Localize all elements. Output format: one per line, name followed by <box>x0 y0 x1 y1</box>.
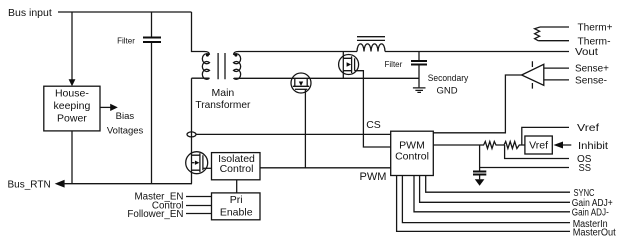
svg-text:Vref: Vref <box>577 123 599 134</box>
svg-text:Sense-: Sense- <box>575 76 607 87</box>
svg-text:Main: Main <box>212 87 235 99</box>
svg-text:Power: Power <box>57 113 87 125</box>
block pri enable <box>212 193 261 220</box>
wire primary top <box>192 12 210 55</box>
svg-text:Filter: Filter <box>385 60 403 69</box>
polarity dot primary <box>206 54 209 57</box>
svg-text:Secondary: Secondary <box>428 73 469 84</box>
transistor Q3 primary switch <box>186 152 208 174</box>
arrow bias voltages <box>100 106 111 108</box>
wire OS tap <box>505 145 569 159</box>
svg-text:CS: CS <box>366 119 381 131</box>
block isolated control <box>212 153 261 180</box>
svg-text:Vref: Vref <box>529 140 548 152</box>
svg-text:Bias: Bias <box>116 111 135 122</box>
wire Q3 gate <box>203 167 212 169</box>
wire housekeeping feed with arrow <box>71 12 73 80</box>
wire secondary ground run <box>234 77 420 79</box>
resistor R2 thermistor <box>535 27 540 41</box>
wire Q1 gate <box>355 71 391 147</box>
transistor Q1 forward rectifier <box>339 52 359 79</box>
svg-text:Transformer: Transformer <box>195 99 250 111</box>
svg-text:GND: GND <box>436 85 457 96</box>
wire housekeeping return <box>71 131 73 184</box>
svg-text:Sense+: Sense+ <box>575 64 609 75</box>
wire bus input rail <box>58 11 192 13</box>
transformer T1 primary winding <box>202 54 209 80</box>
capacitor C3 output filter <box>418 52 420 61</box>
resistor R1 (to Vref) <box>433 142 525 149</box>
wire primary return <box>191 78 193 184</box>
wire MasterOut <box>397 176 570 232</box>
wire isolated control to pri enable <box>236 180 238 193</box>
svg-text:Follower_EN: Follower_EN <box>127 209 183 220</box>
wire sense+ <box>544 67 569 69</box>
svg-text:Gain ADJ-: Gain ADJ- <box>572 207 609 218</box>
transistor Q2 catch rectifier <box>291 73 311 93</box>
svg-text:Control: Control <box>395 151 429 163</box>
wire follower_en <box>186 213 212 215</box>
wire Q2 gate <box>304 89 306 168</box>
node A (primary sense node, open ellipse) <box>187 132 196 137</box>
inductor L1 core bars <box>357 37 385 41</box>
svg-text:Therm-: Therm- <box>578 36 611 47</box>
svg-text:Control: Control <box>220 163 254 175</box>
wire sense- <box>544 79 569 81</box>
transformer T1 core <box>218 53 225 79</box>
wire CS rail <box>196 133 391 135</box>
capacitor C2 soft start <box>479 145 481 171</box>
svg-text:PWM: PWM <box>399 139 425 151</box>
transformer T1 secondary winding <box>234 54 241 80</box>
block Vref <box>525 136 552 154</box>
svg-text:Therm+: Therm+ <box>578 23 613 34</box>
arrow inhibit <box>554 142 564 149</box>
capacitor C1 input filter <box>151 12 153 37</box>
wire rail after inductor <box>385 51 569 53</box>
wire control <box>186 205 212 207</box>
svg-text:Pri: Pri <box>230 194 243 206</box>
ground (triangle) <box>475 179 485 186</box>
svg-text:House-: House- <box>55 88 89 100</box>
wire sense feedback to PWM <box>433 75 521 133</box>
svg-text:Enable: Enable <box>220 206 253 218</box>
svg-text:Filter: Filter <box>117 36 135 45</box>
block PWM control <box>391 131 434 175</box>
wire Vref output <box>522 127 569 145</box>
wire master_en <box>186 196 212 198</box>
svg-text:MasterOut: MasterOut <box>573 228 616 239</box>
svg-text:Vout: Vout <box>575 47 598 58</box>
inductor L1 <box>357 44 385 52</box>
svg-text:Bus input: Bus input <box>8 7 52 19</box>
svg-text:Voltages: Voltages <box>107 126 144 137</box>
wire therm+ <box>540 26 569 28</box>
wire Gain ADJ- <box>414 176 570 212</box>
svg-text:Bus_RTN: Bus_RTN <box>8 179 51 190</box>
svg-text:PWM: PWM <box>360 171 387 183</box>
wire Gain ADJ+ <box>420 176 570 203</box>
wire SYNC <box>426 176 570 193</box>
wire primary bottom <box>192 77 210 79</box>
block housekeeping power <box>44 86 100 131</box>
wire therm- <box>538 40 569 42</box>
wire MasterIn <box>402 176 570 223</box>
wire bus rtn rail with arrow <box>55 180 65 188</box>
polarity dot secondary <box>234 54 237 57</box>
op-amp sense buffer <box>522 61 544 88</box>
svg-text:Inhibit: Inhibit <box>578 141 608 152</box>
wire secondary rail to Vout <box>234 52 358 55</box>
wire PWM (isolated control to pwm control) <box>260 167 391 169</box>
svg-text:SS: SS <box>579 163 592 174</box>
ground secondary <box>413 88 426 93</box>
wire SS tap <box>480 167 569 169</box>
svg-text:keeping: keeping <box>54 100 91 112</box>
